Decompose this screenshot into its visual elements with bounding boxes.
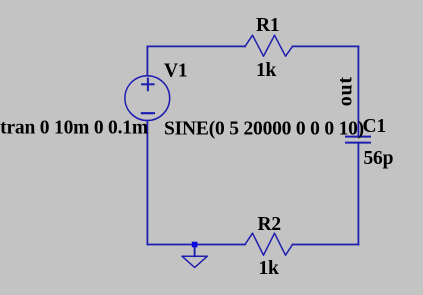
svg-text:SINE(0 5 20000 0 0 0 10): SINE(0 5 20000 0 0 0 10) [164, 118, 364, 139]
svg-text:C1: C1 [363, 116, 386, 137]
svg-text:1k: 1k [259, 258, 280, 279]
svg-text:R1: R1 [256, 15, 279, 36]
svg-text:R2: R2 [258, 214, 281, 235]
svg-text:1k: 1k [256, 60, 277, 81]
svg-text:V1: V1 [164, 60, 187, 81]
svg-text:out: out [335, 76, 357, 106]
svg-text:56p: 56p [364, 148, 394, 169]
svg-text:.tran 0 10m 0 0.1m: .tran 0 10m 0 0.1m [0, 118, 148, 139]
